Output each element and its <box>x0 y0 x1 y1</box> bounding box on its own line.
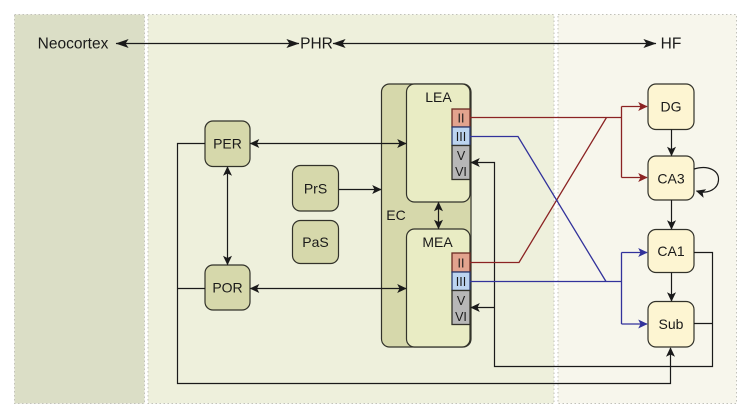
svg-text:POR: POR <box>212 280 242 296</box>
layer LEA III <box>452 127 470 146</box>
box POR <box>205 265 250 310</box>
wire PrS-EC arrow <box>339 189 381 191</box>
svg-text:PaS: PaS <box>302 234 328 250</box>
wire blue arrow to CA1 <box>622 252 648 254</box>
box CA1 <box>648 230 694 273</box>
box CA3 <box>648 156 694 200</box>
wire LEA III diagonal (blue) <box>470 137 606 282</box>
wire CA1 to deep layers feedback <box>471 163 713 367</box>
box LEA <box>407 84 471 202</box>
wire PER-POR double arrow <box>227 167 229 265</box>
svg-text:PHR: PHR <box>300 36 333 53</box>
wire POR branch to feedback <box>177 288 205 290</box>
svg-text:III: III <box>456 275 466 289</box>
svg-text:LEA: LEA <box>425 89 452 105</box>
svg-text:PER: PER <box>213 136 242 152</box>
svg-text:VI: VI <box>455 165 467 179</box>
svg-text:II: II <box>458 257 465 271</box>
layer LEA II <box>452 109 470 127</box>
box PER <box>205 121 250 167</box>
wire Sub branch to feedback <box>694 323 713 325</box>
wire CA1-Sub arrow <box>671 273 673 302</box>
svg-text:Neocortex: Neocortex <box>38 36 109 53</box>
svg-text:CA3: CA3 <box>657 171 684 187</box>
svg-text:HF: HF <box>661 36 682 53</box>
svg-text:V: V <box>457 294 466 308</box>
box PrS <box>293 166 339 212</box>
wire MEA III to junction (blue) <box>470 281 622 283</box>
svg-text:DG: DG <box>661 99 682 115</box>
wire MEA II diagonal (red) <box>470 118 607 263</box>
layer MEA V/VI <box>452 291 470 325</box>
svg-text:II: II <box>458 112 465 126</box>
box DG <box>648 84 694 130</box>
wire Neocortex-PHR double arrow <box>116 43 299 45</box>
svg-text:VI: VI <box>455 310 467 324</box>
wire red junction vertical <box>621 107 623 178</box>
layer MEA III <box>452 272 470 291</box>
wire PER/POR to Sub feedback <box>178 144 671 384</box>
region Neocortex background <box>15 15 145 404</box>
wire red arrow to DG <box>622 106 648 108</box>
svg-text:Sub: Sub <box>659 316 684 332</box>
svg-text:V: V <box>457 149 466 163</box>
wire LEA II to junction (red) <box>470 117 622 119</box>
layer MEA II <box>452 253 470 272</box>
wire CA3 self-loop <box>694 168 719 193</box>
wire POR-MEA double arrow <box>251 288 407 290</box>
svg-text:CA1: CA1 <box>657 243 684 259</box>
wire CA3-CA1 arrow <box>671 200 673 229</box>
box Sub <box>648 302 694 348</box>
wire red arrow to CA3 <box>622 177 648 179</box>
svg-text:III: III <box>456 130 466 144</box>
box EC <box>382 84 472 347</box>
wire feedback branch to MEA V/VI <box>471 307 495 309</box>
wire PHR-HF double arrow <box>333 43 656 45</box>
svg-text:EC: EC <box>386 207 405 223</box>
wire DG-CA3 arrow <box>671 130 673 156</box>
wire blue arrow to Sub <box>622 323 648 325</box>
wire blue junction vertical <box>621 253 623 325</box>
wire PER-LEA double arrow <box>251 143 407 145</box>
region HF background <box>558 15 737 404</box>
box PaS <box>293 221 339 264</box>
layer LEA V/VI <box>452 146 470 180</box>
svg-text:PrS: PrS <box>304 181 327 197</box>
wire LEA-MEA double arrow <box>438 203 440 229</box>
box MEA <box>407 229 471 347</box>
region PHR background <box>148 15 554 404</box>
svg-text:MEA: MEA <box>422 234 453 250</box>
